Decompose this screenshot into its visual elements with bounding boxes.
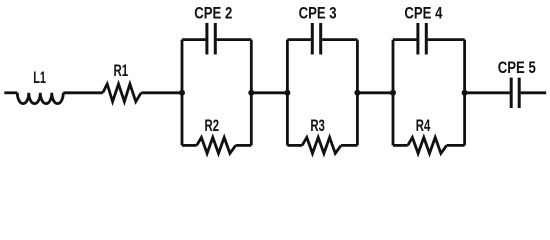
wire: section 3 right vertical <box>463 40 466 146</box>
wire: section 1 right vertical <box>250 40 253 146</box>
wire: section 3 top branch left <box>393 38 417 41</box>
wire: node A to node B <box>251 91 287 94</box>
wire: section 2 top branch left <box>287 38 311 41</box>
wire: section 1 bottom branch right <box>236 144 252 147</box>
inductor L1 <box>17 93 63 104</box>
svg-text:CPE 4: CPE 4 <box>404 4 443 23</box>
svg-text:CPE 3: CPE 3 <box>299 4 337 23</box>
wire: section 2 left vertical <box>286 40 289 146</box>
node C junction dot <box>284 90 290 96</box>
wire: section 2 top branch right <box>322 38 357 41</box>
svg-text:L1: L1 <box>33 69 46 88</box>
wire: L1 to R1 <box>63 91 103 94</box>
resistor R3 <box>302 137 341 153</box>
wire: section 1 top branch right <box>217 38 252 41</box>
resistor R4 <box>408 137 447 153</box>
svg-text:R3: R3 <box>310 117 325 136</box>
wire: node F to CPE 5 <box>465 91 510 94</box>
svg-text:R4: R4 <box>416 117 431 136</box>
svg-text:CPE 5: CPE 5 <box>498 58 537 77</box>
capacitor CPE 2 <box>207 23 215 55</box>
wire: section 1 left vertical <box>181 40 184 146</box>
wire: R1 to node A <box>141 91 182 94</box>
wire: section 3 top branch right <box>428 38 465 41</box>
wire: section 2 bottom branch left <box>287 144 302 147</box>
resistor R1 <box>103 84 141 102</box>
svg-text:CPE 2: CPE 2 <box>194 4 232 23</box>
wire: left lead into L1 <box>4 91 17 94</box>
node D junction dot <box>354 90 360 96</box>
wire: section 1 bottom branch left <box>182 144 197 147</box>
svg-text:R1: R1 <box>114 62 129 81</box>
wire: section 2 bottom branch right <box>341 144 357 147</box>
wire: section 3 bottom branch right <box>447 144 465 147</box>
capacitor CPE 3 <box>312 23 320 55</box>
wire: CPE 5 right lead <box>521 91 547 94</box>
wire: section 3 bottom branch left <box>393 144 408 147</box>
resistor R2 <box>197 137 236 153</box>
node E junction dot <box>390 90 396 96</box>
capacitor CPE 5 <box>511 78 519 108</box>
wire: section 2 right vertical <box>356 40 359 146</box>
node F junction dot <box>462 90 468 96</box>
wire: section 1 top branch left <box>182 38 206 41</box>
node A junction dot <box>179 90 185 96</box>
wire: section 3 left vertical <box>392 40 395 146</box>
capacitor CPE 4 <box>418 23 426 55</box>
node B junction dot <box>248 90 254 96</box>
wire: node C to node D <box>357 91 393 94</box>
svg-text:R2: R2 <box>205 117 220 136</box>
